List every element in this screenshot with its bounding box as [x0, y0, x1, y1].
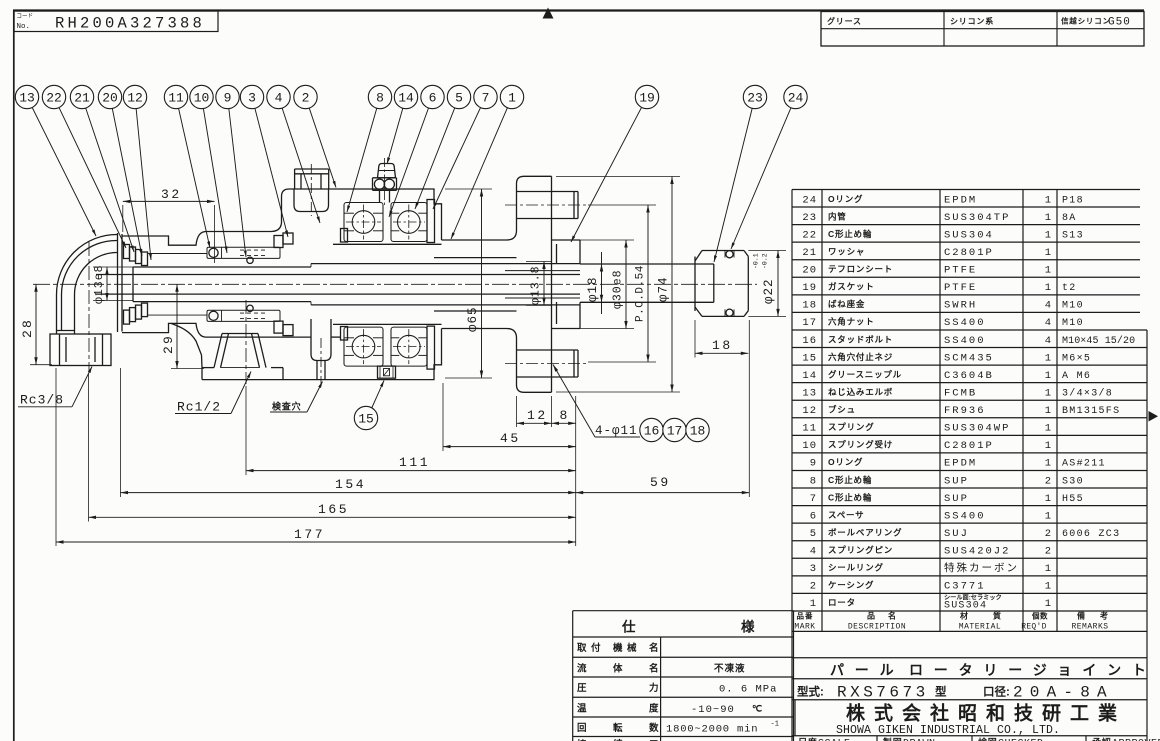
- svg-text:11: 11: [802, 423, 817, 435]
- bearing retainer plate upper (item 7): [427, 200, 435, 243]
- inspection hole axis: [320, 338, 322, 389]
- Rc1/2 axis: [245, 300, 247, 384]
- svg-text:M10×45 15/20: M10×45 15/20: [1062, 335, 1135, 347]
- rotor tube outer left portion: [133, 266, 311, 268]
- svg-text:H55: H55: [1062, 494, 1084, 505]
- svg-text:C形止め輪: C形止め輪: [828, 229, 872, 239]
- Rc1/2 socket walls: [214, 334, 222, 368]
- elbow inner arc: [75, 252, 118, 294]
- svg-text:圧: 圧: [577, 683, 587, 694]
- svg-text:φ13e8: φ13e8: [93, 264, 106, 304]
- svg-text:検図: 検図: [978, 737, 998, 741]
- rotor surfaces under bearings: [333, 243, 442, 245]
- svg-text:械: 械: [627, 642, 637, 654]
- svg-text:シリコン系: シリコン系: [950, 16, 994, 26]
- svg-text:1: 1: [1045, 229, 1051, 241]
- svg-text:取: 取: [577, 643, 587, 654]
- balloon 24: [784, 85, 807, 108]
- svg-text:22: 22: [802, 229, 817, 241]
- rotor surfaces between retainer and flange: [434, 257, 517, 259]
- casing lower profile: [122, 323, 311, 337]
- bolt hole lower centerline: [505, 363, 588, 365]
- balloon leader 7: [433, 108, 481, 209]
- balloon 19: [635, 85, 658, 108]
- svg-text:スプリングピン: スプリングピン: [828, 545, 893, 555]
- balloon leader 15: [372, 381, 385, 409]
- O-ring item9 upper: [247, 257, 253, 263]
- svg-text:BM1315FS: BM1315FS: [1062, 406, 1120, 417]
- svg-text:グリース: グリース: [827, 16, 862, 26]
- svg-text:ケーシング: ケーシング: [828, 580, 874, 590]
- svg-text:C形止め輪: C形止め輪: [828, 475, 872, 485]
- svg-text:MATERIAL: MATERIAL: [959, 623, 1001, 632]
- svg-text:ねじ込みエルボ: ねじ込みエルボ: [828, 387, 893, 397]
- page left border: [13, 10, 15, 741]
- svg-text:1: 1: [1045, 282, 1051, 294]
- balloon 2: [294, 85, 317, 108]
- balloon 11: [164, 85, 187, 108]
- bearing washer tab upper (item 8): [341, 229, 348, 243]
- screw-in elbow Rc3/8 outer arc: [56, 234, 117, 294]
- seal ring blocks lower: [274, 321, 283, 333]
- svg-text:力: 力: [649, 682, 659, 694]
- svg-text:RXS7673: RXS7673: [837, 684, 929, 702]
- svg-text:5: 5: [455, 91, 463, 106]
- dim 177: [56, 541, 576, 543]
- svg-text:M6×5: M6×5: [1062, 353, 1091, 364]
- svg-text:EPDM: EPDM: [944, 458, 977, 470]
- Rc1/2 port pad: [201, 368, 203, 380]
- svg-text:承認: 承認: [1092, 737, 1112, 741]
- svg-text:REQ'D: REQ'D: [1021, 623, 1047, 632]
- casing top plug boss: [294, 169, 296, 189]
- svg-text:信越シリコン: 信越シリコン: [1061, 16, 1111, 26]
- bolt hole lower: [517, 349, 579, 351]
- svg-text:転: 転: [613, 722, 623, 734]
- svg-text:名: 名: [649, 642, 659, 654]
- svg-text:2: 2: [1045, 475, 1051, 487]
- balloon 6: [421, 85, 444, 108]
- svg-text:8: 8: [810, 475, 817, 487]
- title block model row: [792, 699, 1147, 701]
- svg-text:S30: S30: [1062, 476, 1084, 487]
- svg-text:C形止め輪: C形止め輪: [828, 492, 872, 502]
- callout 4-phi11 with balloons 16 17 18: [595, 436, 640, 438]
- svg-text:2: 2: [1045, 546, 1051, 558]
- balloon 4: [267, 85, 290, 108]
- balloon leader 12: [136, 109, 151, 260]
- svg-text:SUS304WP: SUS304WP: [944, 423, 1010, 435]
- svg-text:6006 ZC3: 6006 ZC3: [1062, 529, 1120, 540]
- spring lower: [207, 310, 280, 321]
- common extension line right: [575, 396, 577, 546]
- code number box: [14, 11, 218, 32]
- balloon 21: [70, 85, 93, 108]
- svg-text:13: 13: [802, 387, 817, 399]
- rotor hub right of flange: [552, 239, 581, 241]
- svg-text:口径:: 口径:: [983, 685, 1010, 699]
- ball bearing lower-right: [391, 327, 427, 366]
- dim 165: [89, 516, 576, 518]
- balloon leader 3: [255, 108, 288, 237]
- balloon 1: [500, 85, 523, 108]
- svg-text:1: 1: [1045, 405, 1051, 417]
- svg-text:六角穴付止ネジ: 六角穴付止ネジ: [828, 352, 893, 362]
- svg-text:24: 24: [788, 91, 804, 106]
- svg-text:-10~90: -10~90: [691, 704, 735, 716]
- balloon 10: [190, 85, 213, 108]
- balloon 15: [354, 406, 377, 429]
- svg-text:1: 1: [1045, 387, 1051, 399]
- gasket (item 19) at flange face: [556, 244, 558, 264]
- svg-text:20: 20: [102, 91, 118, 106]
- svg-text:Rc3/8: Rc3/8: [20, 393, 64, 408]
- ball bearing lower-left: [344, 327, 383, 366]
- svg-text:2: 2: [810, 581, 817, 593]
- svg-text:16: 16: [802, 335, 817, 347]
- svg-text:4-φ11: 4-φ11: [595, 424, 638, 438]
- svg-text:18: 18: [802, 300, 817, 312]
- svg-text:M10: M10: [1062, 301, 1084, 312]
- balloon 20: [98, 85, 121, 108]
- svg-text:13: 13: [19, 91, 35, 106]
- svg-text:REMARKS: REMARKS: [1071, 623, 1108, 632]
- elbow outer wall second arc: [62, 240, 118, 294]
- svg-text:4: 4: [275, 91, 283, 106]
- grease spec table: [821, 12, 1144, 47]
- balloon 16: [640, 418, 663, 441]
- svg-text:165: 165: [318, 502, 349, 517]
- dim phi22 with tolerance: [777, 251, 779, 317]
- dim 154: [121, 492, 576, 494]
- svg-text:1: 1: [1045, 265, 1051, 277]
- svg-text:ブシュ: ブシュ: [828, 405, 856, 415]
- svg-text:材: 材: [960, 611, 969, 621]
- dim 32: [123, 200, 215, 202]
- svg-text:シールリング: シールリング: [828, 563, 884, 573]
- casing lower-left transition curve: [171, 323, 202, 367]
- svg-text:1: 1: [1045, 247, 1051, 259]
- balloon leader 1: [451, 108, 507, 239]
- svg-text:尺度: 尺度: [798, 737, 818, 741]
- svg-text:18: 18: [690, 424, 706, 439]
- svg-text:12: 12: [527, 408, 548, 423]
- balloon leader 8: [347, 108, 377, 212]
- svg-text:1: 1: [1045, 563, 1051, 575]
- retaining ring stack lower: [124, 310, 130, 324]
- grease nipple cap: [378, 164, 396, 178]
- casing top plug pocket: [294, 189, 329, 212]
- svg-text:8: 8: [560, 408, 568, 423]
- dim 18: [695, 352, 748, 354]
- svg-text:SUS304TP: SUS304TP: [944, 212, 1010, 224]
- svg-text:P.C.D.54: P.C.D.54: [635, 265, 647, 322]
- svg-text:19: 19: [639, 91, 655, 106]
- svg-text:23: 23: [802, 212, 817, 224]
- svg-text:M10: M10: [1062, 318, 1084, 329]
- svg-text:32: 32: [161, 187, 182, 202]
- balloon 13: [15, 85, 38, 108]
- svg-text:15: 15: [802, 352, 817, 364]
- dim phi74: [671, 177, 673, 393]
- svg-text:0. 6 MPa: 0. 6 MPa: [719, 684, 777, 696]
- svg-text:SS400: SS400: [944, 335, 986, 347]
- svg-text:14: 14: [802, 370, 817, 382]
- svg-text:2: 2: [1045, 528, 1051, 540]
- rotor flange left face with fillets: [507, 176, 525, 240]
- dim 59: [576, 492, 750, 494]
- dim 45: [443, 446, 576, 448]
- svg-text:-0.1: -0.1: [753, 253, 760, 269]
- inspection hole pocket (bottom): [311, 319, 331, 361]
- rotor flange top/bottom/right edges: [524, 175, 552, 177]
- balloon 17: [663, 418, 686, 441]
- balloon 18: [686, 418, 709, 441]
- svg-text:177: 177: [294, 527, 325, 542]
- svg-text:8: 8: [376, 91, 384, 106]
- svg-text:φ74: φ74: [657, 276, 671, 302]
- svg-text:品番: 品番: [797, 611, 814, 621]
- svg-text:21: 21: [802, 247, 817, 259]
- svg-text:SWRH: SWRH: [944, 300, 977, 312]
- specification table: [573, 610, 794, 612]
- svg-text:16: 16: [644, 424, 660, 439]
- top plug axis: [310, 164, 312, 216]
- svg-text:内管: 内管: [828, 211, 847, 221]
- svg-text:-1: -1: [771, 721, 779, 729]
- svg-text:名: 名: [888, 611, 897, 621]
- casing upper profile: [122, 189, 442, 245]
- grease nipple hex bulge: [373, 177, 397, 179]
- balloon leader 23: [714, 108, 752, 262]
- svg-text:3: 3: [248, 91, 256, 106]
- svg-text:PTFE: PTFE: [944, 265, 977, 277]
- svg-text:1: 1: [1045, 370, 1051, 382]
- main centerline: [33, 283, 757, 285]
- svg-text:φ65: φ65: [466, 306, 480, 332]
- svg-text:S13: S13: [1062, 230, 1084, 241]
- svg-text:質: 質: [993, 611, 1002, 621]
- svg-text:9: 9: [224, 91, 232, 106]
- bolt hole upper: [517, 191, 579, 193]
- svg-text:1: 1: [1045, 194, 1051, 206]
- set screw M6 block: [378, 366, 396, 378]
- svg-text:12: 12: [127, 91, 143, 106]
- svg-text:SHOWA GIKEN INDUSTRIAL CO., LT: SHOWA GIKEN INDUSTRIAL CO., LTD.: [836, 724, 1060, 737]
- bearing retainer plate lower: [427, 326, 435, 369]
- svg-text:不凍液: 不凍液: [714, 663, 746, 675]
- svg-text:SUS304: SUS304: [944, 229, 994, 241]
- title block bottom row (cut off): [876, 736, 878, 741]
- svg-text:コード: コード: [17, 13, 34, 20]
- svg-text:1: 1: [1045, 510, 1051, 522]
- dim 29: [176, 284, 178, 368]
- svg-text:1: 1: [1045, 423, 1051, 435]
- inner pipe bore: [96, 274, 580, 276]
- dim 111: [246, 470, 576, 472]
- svg-text:19: 19: [802, 282, 817, 294]
- svg-text:C3604B: C3604B: [944, 370, 994, 382]
- svg-text:1: 1: [810, 598, 817, 610]
- svg-text:10: 10: [194, 91, 210, 106]
- svg-text:No.: No.: [17, 23, 31, 31]
- svg-text:18: 18: [712, 338, 733, 353]
- bolt hole upper centerline: [505, 204, 588, 206]
- svg-text:Rc1/2: Rc1/2: [177, 400, 221, 415]
- svg-text:型式:: 型式:: [797, 685, 824, 699]
- svg-text:SUS304: SUS304: [944, 601, 987, 612]
- svg-text:温: 温: [577, 702, 587, 714]
- right revision marker: [1149, 411, 1159, 422]
- svg-text:Oリング: Oリング: [828, 194, 863, 204]
- dim 12: [517, 422, 552, 424]
- svg-text:4: 4: [1045, 300, 1051, 312]
- svg-text:SS400: SS400: [944, 510, 986, 522]
- O-ring item9 lower: [247, 305, 253, 311]
- balloon 12: [123, 85, 146, 108]
- svg-text:7: 7: [482, 91, 490, 106]
- rotor shaft phi18: [580, 263, 714, 265]
- dim 8: [552, 422, 576, 424]
- svg-text:仕: 仕: [621, 619, 636, 635]
- balloon 3: [240, 85, 263, 108]
- svg-text:P18: P18: [1062, 195, 1084, 206]
- svg-text:度: 度: [649, 702, 659, 714]
- svg-text:FR936: FR936: [944, 405, 986, 417]
- svg-text:φ22: φ22: [762, 278, 776, 304]
- svg-text:ロータ: ロータ: [828, 598, 856, 608]
- svg-text:数: 数: [648, 722, 659, 734]
- grease nipple axis: [384, 158, 386, 206]
- svg-text:4: 4: [1045, 317, 1051, 329]
- svg-text:C3771: C3771: [944, 581, 986, 593]
- svg-text:パール: パール: [830, 662, 904, 678]
- svg-text:φ30e8: φ30e8: [612, 269, 625, 309]
- dim phi30e8: [625, 240, 627, 329]
- balloon leader 10: [203, 109, 227, 253]
- elbow centerline: [88, 242, 90, 371]
- svg-text:1: 1: [1045, 212, 1051, 224]
- svg-text:9: 9: [810, 458, 817, 470]
- svg-text:SUP: SUP: [944, 475, 969, 487]
- svg-text:AS#211: AS#211: [1062, 459, 1106, 470]
- top centering mark: [543, 8, 554, 19]
- svg-text:個数: 個数: [1031, 611, 1048, 621]
- svg-text:C2801P: C2801P: [944, 440, 994, 452]
- svg-text:六角ナット: 六角ナット: [828, 317, 875, 327]
- balloon 14: [394, 85, 417, 108]
- balloon 23: [743, 85, 766, 108]
- svg-text:品: 品: [867, 612, 876, 621]
- svg-text:7: 7: [810, 493, 817, 505]
- balloon 8: [368, 85, 391, 108]
- balloon 9: [216, 85, 239, 108]
- svg-text:22: 22: [46, 91, 62, 106]
- svg-text:1800~2000 min: 1800~2000 min: [666, 724, 758, 736]
- dim 28: [35, 284, 37, 364]
- svg-text:20A-8A: 20A-8A: [1013, 684, 1114, 702]
- O-ring P18 upper (item 24): [724, 251, 726, 258]
- svg-text:4: 4: [810, 546, 817, 558]
- svg-text:1: 1: [1045, 352, 1051, 364]
- svg-text:111: 111: [399, 455, 430, 470]
- svg-text:製図: 製図: [882, 737, 903, 741]
- svg-text:t2: t2: [1062, 283, 1077, 294]
- svg-text:スプリング受け: スプリング受け: [828, 440, 893, 450]
- dim phi13e8: [106, 267, 108, 301]
- svg-text:スペーサ: スペーサ: [828, 510, 864, 520]
- svg-text:1: 1: [1045, 598, 1051, 610]
- svg-text:10: 10: [802, 440, 817, 452]
- bearing washer tab lower: [341, 327, 348, 341]
- inner pipe end cap body: [702, 250, 744, 252]
- dim phi13.8: [543, 262, 545, 306]
- ball bearing upper-left: [344, 203, 383, 242]
- balloon leader 4: [282, 108, 320, 223]
- svg-text:6: 6: [810, 510, 817, 522]
- svg-text:154: 154: [335, 477, 366, 492]
- svg-text:体: 体: [613, 663, 623, 675]
- flange bore step lines: [505, 270, 580, 272]
- svg-text:スタッドボルト: スタッドボルト: [828, 334, 893, 344]
- parts list table: [792, 189, 1140, 191]
- grease nipple stem: [379, 190, 381, 202]
- svg-text:1: 1: [1045, 458, 1051, 470]
- balloon leader 20: [112, 108, 142, 256]
- svg-text:5: 5: [810, 528, 817, 540]
- balloon leader 24: [731, 108, 791, 249]
- svg-text:17: 17: [802, 317, 817, 329]
- svg-text:考: 考: [1100, 611, 1109, 621]
- svg-text:8A: 8A: [1062, 213, 1077, 224]
- svg-text:EPDM: EPDM: [944, 194, 977, 206]
- rotor flange spigot phi30e8: [442, 239, 507, 241]
- svg-text:回: 回: [577, 723, 587, 734]
- svg-text:ばね座金: ばね座金: [828, 299, 865, 309]
- seal ring blocks upper: [274, 236, 283, 248]
- svg-text:RH200A327388: RH200A327388: [55, 15, 205, 33]
- O-ring P18 lower: [724, 309, 726, 316]
- svg-text:名: 名: [649, 663, 659, 675]
- svg-text:C2801P: C2801P: [944, 247, 994, 259]
- svg-text:備: 備: [1077, 611, 1086, 621]
- svg-text:MARK: MARK: [794, 623, 815, 632]
- svg-text:SUP: SUP: [944, 493, 969, 505]
- svg-text:-0.2: -0.2: [762, 253, 769, 269]
- svg-text:21: 21: [74, 91, 90, 106]
- balloon leader 11: [179, 108, 210, 248]
- svg-text:14: 14: [398, 91, 414, 106]
- svg-text:SUS420J2: SUS420J2: [944, 546, 1010, 558]
- balloon leader 5: [415, 108, 455, 209]
- balloon leader 6: [389, 108, 429, 217]
- balloon leader 2: [309, 108, 336, 187]
- svg-text:様: 様: [741, 619, 755, 635]
- svg-text:6: 6: [429, 91, 437, 106]
- svg-text:℃: ℃: [752, 703, 763, 713]
- svg-text:ワッシャ: ワッシャ: [828, 246, 865, 256]
- svg-text:1: 1: [508, 91, 516, 106]
- svg-text:SUJ: SUJ: [944, 528, 969, 540]
- elbow vertical leg: [56, 295, 58, 335]
- elbow right joint faces: [117, 233, 119, 332]
- page top border: [13, 9, 1144, 11]
- svg-text:1: 1: [1045, 440, 1051, 452]
- svg-text:Oリング: Oリング: [828, 457, 863, 467]
- svg-text:28: 28: [20, 318, 35, 338]
- balloon 22: [42, 85, 65, 108]
- svg-text:φ13.8: φ13.8: [530, 265, 543, 305]
